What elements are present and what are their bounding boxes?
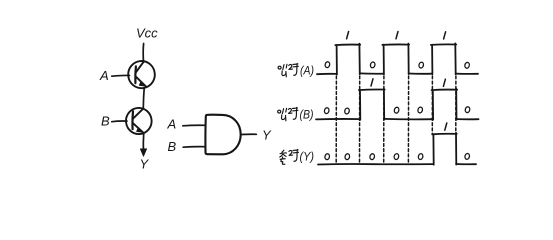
svg-text:B: B (168, 139, 177, 154)
waveform A logic 0 labels (325, 61, 470, 68)
grid dashed line t4 (407, 76, 409, 163)
svg-text:Vcc: Vcc (136, 26, 158, 41)
and-gate U1 body (205, 115, 240, 155)
wire and-gate U1 output to Y (241, 133, 256, 135)
waveform B logic 0 labels (324, 106, 471, 114)
svg-text:Y: Y (140, 157, 150, 172)
waveform Y logic 0 labels (324, 153, 470, 160)
svg-text:B: B (101, 114, 110, 129)
waveform A (317, 43, 478, 74)
wire Q1 emitter to Q2 collector (142, 88, 145, 109)
axis label: input (B) korean (278, 108, 298, 121)
transistor Q2 (125, 107, 152, 135)
grid dashed line t6 (455, 76, 457, 133)
wire B to Q2 base (112, 120, 127, 123)
svg-text:(A): (A) (300, 64, 314, 78)
svg-text:A: A (99, 68, 109, 83)
transistor Q1 (127, 60, 155, 89)
axis label: input (A) korean (278, 64, 298, 77)
grid dashed line t5 (431, 76, 433, 133)
wire A to Q1 base (112, 74, 130, 77)
axis label: output (Y) korean (280, 150, 299, 165)
grid dashed line t2 (359, 76, 361, 163)
waveform Y (318, 133, 476, 165)
svg-text:(B): (B) (300, 108, 314, 122)
svg-text:Y: Y (262, 128, 272, 143)
wire B to and-gate U1 (183, 146, 205, 149)
svg-text:(Y): (Y) (300, 150, 315, 164)
svg-text:A: A (167, 117, 177, 132)
waveform B logic 1 labels (371, 79, 445, 87)
wire A to and-gate U1 (183, 124, 206, 127)
waveform A logic 1 labels (347, 32, 446, 40)
wire Q2 emitter to output Y (arrow) (142, 134, 144, 151)
grid dashed line t3 (383, 76, 385, 163)
waveform B (316, 89, 479, 120)
waveform Y logic 1 label (445, 123, 447, 130)
wire Vcc to Q1 collector (142, 44, 144, 62)
grid dashed line t1 (335, 76, 337, 163)
